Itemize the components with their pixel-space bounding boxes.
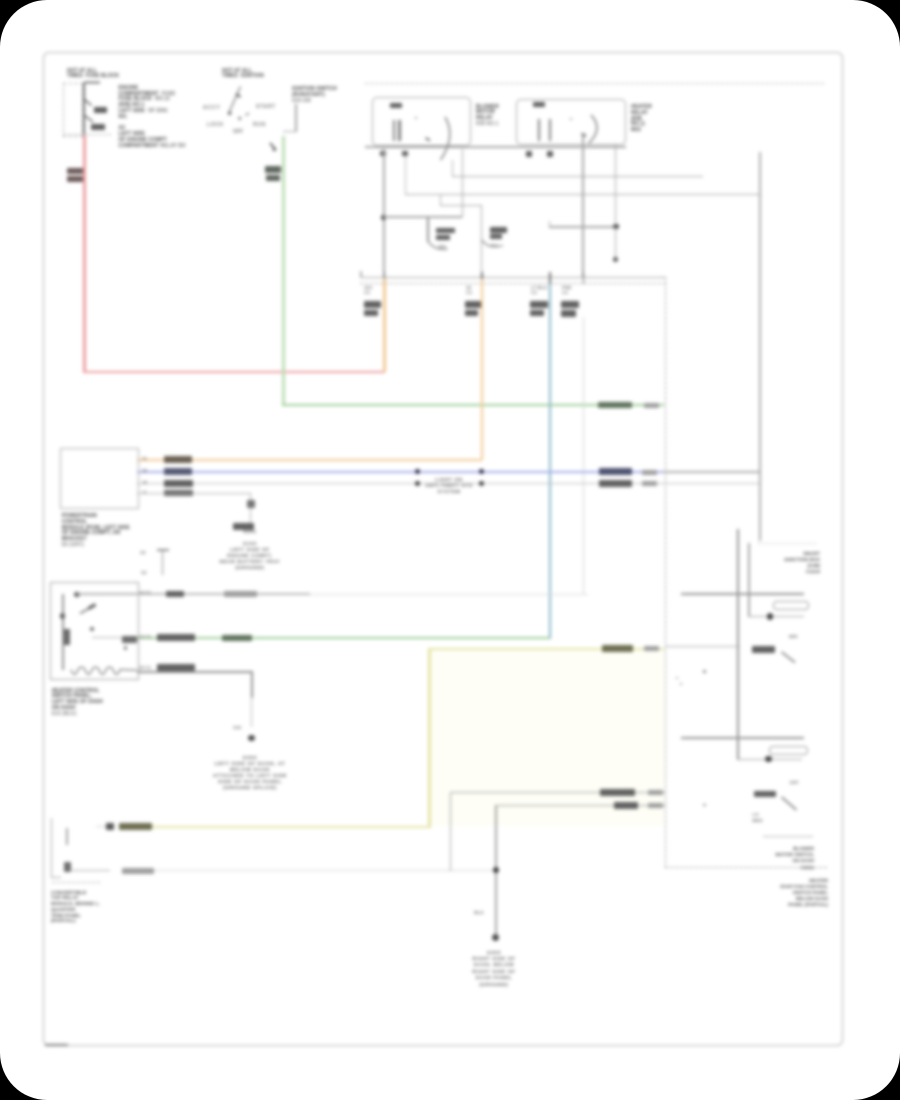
wire red vertical (83, 135, 86, 372)
ignition switch position label LOCK (207, 122, 224, 128)
wire RED label (67, 168, 84, 174)
wire green B color label (222, 635, 252, 641)
BLK label near ground (474, 911, 484, 917)
ground G3 text (458, 950, 530, 988)
wire y793 color label (600, 789, 635, 796)
right text block (module) (744, 878, 828, 908)
relay K1 coil (393, 120, 395, 141)
connector label group 4 (562, 285, 572, 296)
bus crossing tick x384 (384, 272, 386, 284)
PCM row3 label (164, 480, 193, 486)
row A line (y594) (137, 593, 310, 594)
right text block (blower switch) (760, 846, 814, 871)
ground G2 text (204, 756, 296, 792)
wire gray row3 y483.5 (137, 483, 760, 484)
heater switch resistive element (71, 667, 137, 674)
wire stub arc to y176 (452, 160, 454, 176)
PCM text block (62, 514, 130, 549)
resistor R1 label (789, 634, 797, 640)
heater control switch box (50, 582, 139, 680)
bottom light line y870 to x495 (154, 870, 495, 871)
relay bottom rail (365, 146, 626, 148)
relay K1 box (372, 97, 471, 146)
wire y806 color label (614, 802, 638, 809)
junction dot x495 y870 (493, 867, 499, 873)
switch S1 label (752, 646, 775, 652)
wire blue continuation gray (663, 471, 760, 473)
S10 label (233, 725, 241, 731)
wire step y205 (440, 205, 482, 207)
wire horizontal y793 (450, 792, 666, 794)
relay K1 switch arc (441, 117, 450, 160)
frame corner tick (45, 1044, 68, 1047)
relay K1 switch contact (426, 138, 431, 141)
yellow connector dot (106, 823, 114, 831)
wire vertical relay K1 to bus (383, 149, 385, 278)
row C vertical to ground (251, 671, 253, 698)
wire gray row3 label (599, 480, 632, 487)
fuse block pin diagonal 2 (84, 115, 93, 122)
connector label group 2 (466, 285, 472, 296)
ignition switch lever (230, 87, 241, 112)
row C labels (139, 665, 151, 671)
bottom row2 line (70, 870, 110, 872)
ground G1 text (214, 529, 286, 571)
relay K1 pin stubs (380, 151, 386, 157)
right dashes y543 (758, 543, 816, 544)
ignition switch position label ACCY (203, 105, 221, 111)
yellow region tint (431, 651, 664, 826)
row B inside segment (92, 637, 137, 638)
row B labels (139, 634, 151, 640)
dashed rail top (365, 83, 824, 84)
dashed bus vertical x665 (665, 277, 666, 868)
resistor R1 (773, 601, 809, 611)
bottom-left connector bracket (51, 818, 53, 878)
wire orange horizontal y460 (137, 459, 482, 461)
wire green vertical (ignition feed) (282, 136, 284, 406)
bottom-left text block (51, 891, 100, 926)
wire blue color label (599, 468, 632, 475)
fuse symbol F-B (490, 227, 507, 233)
fuse block pin bus (vertical) (83, 83, 85, 136)
dashed bus left end tick (360, 271, 362, 278)
right vertical x760 (759, 152, 761, 541)
heater switch text block (52, 689, 103, 718)
fuse F-B arc (482, 240, 503, 247)
wire orange vertical x384 (bus to red) (383, 279, 385, 372)
wire gray row4 to ground (137, 493, 251, 494)
heater switch wiper diagonal (80, 605, 95, 614)
switch pivot dot on vertical (60, 613, 65, 619)
wire orange vertical x481 (481, 279, 483, 460)
relay K1 pin label (390, 103, 402, 108)
right text block (junction box) (765, 552, 820, 577)
ignition switch position label OFF (233, 129, 243, 135)
wire vertical x481 above bus (481, 205, 483, 278)
ignition switch pivot (228, 112, 231, 115)
row A labels (139, 590, 151, 596)
wire blue horizontal y472 (137, 471, 663, 474)
bus crossing tick x583 (583, 272, 585, 284)
relay K2 pin label (533, 102, 545, 107)
wire vertical pin stub x405 (405, 156, 407, 195)
fuse F-A arc (428, 240, 448, 249)
relay K2 switch contact (582, 134, 587, 137)
relay K1 pin dot (415, 117, 417, 119)
dashed bus horizontal y277 (360, 277, 666, 278)
wire gray corner from ignition (295, 104, 297, 132)
ignition switch position label RUN (253, 122, 266, 128)
ground G2 junction dot (248, 735, 255, 742)
PCM row2 BLU label (164, 468, 192, 475)
wire green A horizontal (282, 404, 664, 406)
wire yellow color label top (602, 645, 633, 652)
L-wire 2: corner at x737 y760 (737, 759, 802, 761)
switch S2 small label (790, 780, 799, 786)
switch internal contact dots (74, 592, 80, 598)
wire vertical x615 w/ end dot (615, 144, 617, 259)
anti-theft note text (425, 477, 473, 495)
wire horizontal y194 (405, 194, 760, 196)
fuse block bottom dashed edge (63, 134, 111, 135)
wire horizontal y806 (495, 805, 666, 807)
fuse block connector box (dashed) (63, 83, 83, 137)
wire horizontal y227 (549, 226, 616, 228)
wire vertical x462 (462, 149, 464, 217)
wire teal vertical (549, 279, 551, 638)
wire horizontal y647 (to switch S1) (665, 646, 740, 648)
PCM row pre-labels (142, 456, 147, 462)
ignition switch text right (292, 87, 337, 104)
wire horizontal y594 (681, 593, 804, 595)
L-wire 1: vertical x748 + horizontal y617 (748, 543, 750, 617)
ignition output arrow (270, 143, 276, 150)
wire vertical x450 (450, 792, 452, 871)
wire green B horizontal (from heater switch) (137, 637, 551, 639)
fuse block pin diagonal 1 (84, 99, 92, 106)
wire horizontal y738 (681, 737, 804, 739)
resistor R2 (769, 746, 808, 756)
ignition switch label (222, 69, 264, 81)
wire horizontal branch y217 (383, 216, 462, 218)
ignition switch contact mark (246, 113, 250, 116)
ignition switch position label START (256, 104, 276, 110)
fuse block top tick (84, 82, 100, 84)
bracket inner tick (66, 828, 67, 845)
junction dots on blue/gray rows (415, 469, 420, 474)
fuse block text block (119, 86, 186, 150)
switch internal vertical (62, 594, 64, 670)
splice symbol (157, 549, 169, 551)
wire red horizontal (83, 371, 385, 374)
wire yellow color label bottom (119, 823, 152, 830)
wire vertical from relay K2 switch (582, 135, 584, 278)
blower switch S1 diagonal (782, 652, 796, 663)
fuse value label (91, 124, 105, 130)
wire horizontal y837 (763, 836, 813, 837)
wire green A circuit number (644, 403, 659, 408)
relay K2 pin stubs (526, 151, 532, 157)
small pin dots right area (680, 683, 683, 686)
fuse element F1 (94, 107, 107, 113)
relay K2 coil (538, 119, 540, 141)
PCM row4 label (164, 490, 193, 496)
connector label group 1 (364, 285, 372, 296)
wire vertical x737 (737, 529, 739, 760)
wire green A color label (598, 402, 632, 409)
text between relays (476, 105, 499, 128)
wire vertical x495 to ground (495, 805, 497, 938)
PCM box (60, 448, 139, 509)
switch internal mark (124, 646, 128, 650)
wire GRN label (265, 166, 281, 173)
wire faint vertical x583 below labels (583, 317, 584, 594)
relay K2 box (516, 99, 626, 145)
dashed bus bottom y867 (665, 867, 827, 868)
wire yellow horizontal y649 (428, 648, 664, 651)
PCM row1 ORN label (164, 456, 192, 463)
fuse block label (HOT AT ALL TIMES) (67, 69, 119, 81)
relay K2 pin dot (570, 118, 572, 120)
fuse symbol F-A (427, 218, 429, 242)
labels below S2 (752, 812, 762, 824)
wire horizontal y176 (452, 176, 703, 178)
switch S2 label (754, 791, 776, 797)
ignition switch lever tick (236, 94, 241, 97)
row C line (y672) (137, 671, 252, 673)
relay K2 switch arc (589, 115, 597, 144)
bus crossing tick x549 (549, 272, 551, 284)
bus crossing tick x481 (481, 272, 483, 284)
switch internal thick bar (64, 629, 70, 645)
junction dot (381, 215, 386, 220)
wire yellow horizontal y827 (152, 826, 430, 829)
ignition switch contact (238, 117, 241, 120)
blower switch S2 diagonal (782, 797, 797, 810)
row4 connector mark (247, 500, 255, 508)
ground G3 end dot (492, 934, 499, 941)
text right of relay K2 (631, 105, 652, 134)
row4 BLK label (233, 523, 254, 530)
wire yellow vertical x428 (428, 648, 431, 828)
connector label group 3 (teal) (531, 285, 547, 296)
row A inside segment (77, 593, 137, 594)
yellow left stub (96, 826, 106, 828)
junction dot y227 (613, 224, 619, 230)
bottom row2 connector mark (64, 862, 71, 872)
